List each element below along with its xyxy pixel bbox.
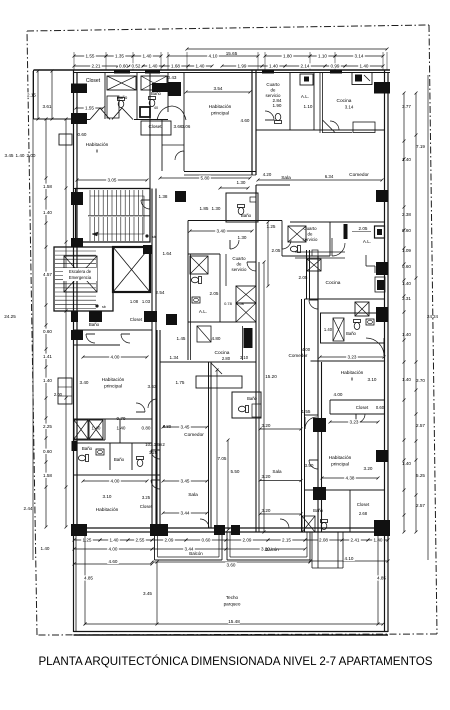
svg-text:1.90: 1.90 xyxy=(273,103,282,108)
door hab principal top xyxy=(175,151,184,160)
svg-text:3.10: 3.10 xyxy=(103,494,112,499)
svg-text:3.10: 3.10 xyxy=(240,355,249,360)
svg-text:1.40: 1.40 xyxy=(402,461,411,466)
svg-text:4.10: 4.10 xyxy=(209,54,218,59)
column C20 xyxy=(214,525,225,535)
bar counter center xyxy=(196,376,242,388)
svg-text:Comedor: Comedor xyxy=(289,353,308,358)
svg-text:2.41: 2.41 xyxy=(351,538,360,543)
svg-text:2.05: 2.05 xyxy=(210,291,219,296)
svg-text:Habitación: Habitación xyxy=(86,142,109,148)
svg-text:7.05: 7.05 xyxy=(218,456,227,461)
door hab ppal left xyxy=(148,399,157,408)
svg-text:1.58: 1.58 xyxy=(43,473,52,478)
wall top exterior xyxy=(34,69,391,71)
svg-text:2.14: 2.14 xyxy=(301,64,310,69)
chimney shaft left xyxy=(58,378,72,404)
dim 3.20 col xyxy=(260,428,301,430)
dim chain top row A xyxy=(74,55,106,57)
svg-text:0.60: 0.60 xyxy=(78,132,87,137)
svg-text:principal: principal xyxy=(104,384,122,390)
svg-text:4.00: 4.00 xyxy=(109,547,118,552)
balcony 2 outline xyxy=(226,532,228,560)
wall right exterior xyxy=(384,70,386,632)
dim 3.23 r2 xyxy=(320,356,384,358)
wall cocina2 sides xyxy=(306,250,308,299)
dim 1.55 closet xyxy=(76,107,103,109)
closet X bottom-left B xyxy=(89,420,103,439)
shower bath2 xyxy=(333,318,344,341)
svg-text:1.40: 1.40 xyxy=(143,54,152,59)
shower bath2 top xyxy=(140,107,150,117)
svg-text:15.65: 15.65 xyxy=(226,51,238,56)
svg-text:1.55: 1.55 xyxy=(85,106,94,111)
svg-text:2.57: 2.57 xyxy=(416,503,425,508)
wall y130 right band xyxy=(256,129,385,131)
wall right apartment service band xyxy=(289,73,291,131)
svg-text:5.25: 5.25 xyxy=(416,473,425,478)
wall top-left notch xyxy=(33,70,35,119)
dim 24.25 left overall xyxy=(32,71,34,560)
wall y490 right rooms xyxy=(305,489,351,491)
toilet bottom-left A xyxy=(78,455,88,462)
column C11 xyxy=(89,311,102,322)
dim 4.00 left xyxy=(83,356,147,358)
svg-text:0.43: 0.43 xyxy=(168,75,177,80)
svg-text:1.40: 1.40 xyxy=(41,546,50,551)
wall AL x220 xyxy=(219,254,221,322)
svg-text:1.10: 1.10 xyxy=(304,104,313,109)
svg-text:7.19: 7.19 xyxy=(416,144,425,149)
toilet cuarto servicio right xyxy=(275,113,282,123)
svg-text:2.00: 2.00 xyxy=(54,392,63,397)
column C17 xyxy=(313,487,326,500)
door habitacion bottom xyxy=(151,480,160,489)
svg-text:3.23: 3.23 xyxy=(348,355,357,360)
svg-text:3.20: 3.20 xyxy=(364,466,373,471)
svg-text:1.40: 1.40 xyxy=(149,64,158,69)
bath2 right box xyxy=(321,313,385,343)
closet X bottom-left A xyxy=(74,420,88,439)
svg-text:3.05: 3.05 xyxy=(108,178,117,183)
svg-text:servicio: servicio xyxy=(303,237,318,242)
wall bottom main xyxy=(74,527,389,529)
svg-text:4.00: 4.00 xyxy=(334,392,343,397)
wall closet strip x162 xyxy=(161,120,163,172)
svg-text:0.99: 0.99 xyxy=(331,64,340,69)
svg-text:3.31: 3.31 xyxy=(402,296,411,301)
door cuarto2 b xyxy=(331,238,333,256)
svg-text:5.80: 5.80 xyxy=(201,176,210,181)
svg-text:3.10: 3.10 xyxy=(368,377,377,382)
svg-text:3.61: 3.61 xyxy=(43,104,52,109)
svg-text:Cuarto: Cuarto xyxy=(303,226,317,231)
door cocina top xyxy=(330,121,339,130)
svg-text:Habitación: Habitación xyxy=(102,377,125,383)
wall chunk right xyxy=(344,224,348,239)
svg-text:1.80: 1.80 xyxy=(283,54,292,59)
closet hatch top A xyxy=(107,76,136,90)
closet hatch cocina2 xyxy=(307,259,321,271)
svg-text:principal: principal xyxy=(211,111,229,117)
svg-text:1.40: 1.40 xyxy=(402,377,411,382)
door closet2 xyxy=(356,414,365,423)
wall y415 entry right xyxy=(305,414,319,416)
svg-text:0.60: 0.60 xyxy=(119,64,128,69)
svg-text:1.40: 1.40 xyxy=(402,332,411,337)
svg-text:2.09: 2.09 xyxy=(165,538,174,543)
svg-text:4.57: 4.57 xyxy=(43,272,52,277)
counter cuarto2 ledge xyxy=(295,251,345,253)
svg-text:Closet: Closet xyxy=(86,78,101,84)
toilet bath center xyxy=(238,406,248,413)
wall parqueo bottom xyxy=(74,631,389,633)
svg-text:103.13m2: 103.13m2 xyxy=(145,442,165,447)
column C4 xyxy=(152,83,168,92)
svg-text:Cocina: Cocina xyxy=(326,280,341,286)
tub top-left xyxy=(107,96,119,118)
svg-text:Habitación: Habitación xyxy=(341,370,364,376)
svg-text:2.80: 2.80 xyxy=(222,356,231,361)
dim chain right inner xyxy=(403,93,405,532)
stair upper flight xyxy=(76,189,150,243)
stair emergency labels xyxy=(63,268,97,281)
door entry right xyxy=(304,417,306,429)
column C21 xyxy=(231,525,240,535)
bath center-top room xyxy=(226,193,258,222)
svg-text:1.75: 1.75 xyxy=(176,380,185,385)
dim 7.05 xyxy=(216,370,218,530)
svg-text:1.40: 1.40 xyxy=(43,378,52,383)
svg-text:0.60: 0.60 xyxy=(402,228,411,233)
svg-text:Techo: Techo xyxy=(226,595,239,600)
svg-text:2.05: 2.05 xyxy=(359,226,368,231)
svg-text:1.03: 1.03 xyxy=(142,299,151,304)
door cocina center leaf xyxy=(211,363,222,374)
duct shaft center xyxy=(236,286,256,303)
dim chain bottom row B xyxy=(74,548,152,550)
door bath left xyxy=(86,334,95,343)
svg-text:1.64: 1.64 xyxy=(163,251,172,256)
wall x302 lower right xyxy=(301,299,303,532)
svg-text:Baño: Baño xyxy=(346,331,356,336)
svg-text:2.09: 2.09 xyxy=(243,538,252,543)
svg-text:servicio: servicio xyxy=(232,267,247,272)
svg-text:2.08: 2.08 xyxy=(319,538,328,543)
svg-text:4.00: 4.00 xyxy=(111,479,120,484)
column C5 xyxy=(374,82,390,94)
lot boundary dash-dot right xyxy=(429,25,437,634)
svg-text:1.40: 1.40 xyxy=(402,157,411,162)
dim 15.48 parqueo xyxy=(85,623,383,625)
toilet bath2 xyxy=(354,320,361,330)
dim 15.20 xyxy=(263,262,265,532)
dim interior verticals xyxy=(267,222,269,286)
svg-text:3.14: 3.14 xyxy=(355,54,364,59)
svg-text:4.80: 4.80 xyxy=(212,336,221,341)
svg-text:1.55: 1.55 xyxy=(302,409,311,414)
svg-text:parqueo: parqueo xyxy=(224,602,241,607)
svg-text:2.25: 2.25 xyxy=(43,424,52,429)
toilet AL left xyxy=(191,277,201,284)
svg-text:1.85: 1.85 xyxy=(200,206,209,211)
svg-text:1.40: 1.40 xyxy=(196,64,205,69)
wall habitacion II xyxy=(74,188,150,190)
dim 4.38 xyxy=(322,477,378,479)
svg-text:1.30: 1.30 xyxy=(238,235,247,240)
column C16 xyxy=(313,418,326,432)
column C15 xyxy=(376,307,388,322)
lot boundary dash-dot left xyxy=(27,31,37,635)
svg-text:4.00: 4.00 xyxy=(302,347,311,352)
door closet mid xyxy=(136,403,145,412)
svg-text:3.45: 3.45 xyxy=(181,479,190,484)
svg-text:1.38: 1.38 xyxy=(159,194,168,199)
svg-text:3.60: 3.60 xyxy=(227,563,236,568)
svg-text:4.85: 4.85 xyxy=(84,576,93,581)
column C19 xyxy=(150,524,168,536)
svg-text:1.40: 1.40 xyxy=(43,210,52,215)
svg-text:1.40: 1.40 xyxy=(16,153,25,158)
wall closet row y419-440 left xyxy=(74,418,152,420)
svg-text:Closet: Closet xyxy=(356,405,369,410)
svg-text:2.54: 2.54 xyxy=(156,290,165,295)
column C6 xyxy=(376,190,388,202)
svg-text:3.14: 3.14 xyxy=(345,105,354,110)
wall kitchen counters top-right xyxy=(319,73,321,134)
column C8 xyxy=(71,192,83,205)
svg-text:1.35: 1.35 xyxy=(115,54,124,59)
dim 24.24 right overall xyxy=(427,75,429,560)
wall y322 center xyxy=(188,321,236,323)
svg-text:6.34: 6.34 xyxy=(325,174,334,179)
svg-text:1.41: 1.41 xyxy=(43,354,52,359)
closet2 box xyxy=(141,121,171,135)
svg-text:1.30: 1.30 xyxy=(237,180,246,185)
column C4b xyxy=(168,82,181,96)
svg-text:Closet: Closet xyxy=(130,317,143,322)
svg-text:3.23: 3.23 xyxy=(350,420,359,425)
dim 15.65 overall top xyxy=(187,48,387,50)
wall x188 center spine xyxy=(187,221,189,361)
dim 3.40 center xyxy=(190,230,252,232)
svg-text:0.70: 0.70 xyxy=(117,416,126,421)
svg-text:2.44: 2.44 xyxy=(24,506,33,511)
column C9 xyxy=(71,238,83,247)
svg-text:1.25: 1.25 xyxy=(149,450,158,455)
svg-text:2.00: 2.00 xyxy=(27,153,36,158)
dim chain left inner xyxy=(45,119,47,527)
door double top xyxy=(157,106,172,120)
svg-text:A.L.: A.L. xyxy=(363,239,371,244)
svg-text:Cocina: Cocina xyxy=(337,98,352,104)
svg-text:sb: sb xyxy=(152,235,156,239)
svg-text:1.55: 1.55 xyxy=(86,54,95,59)
svg-text:Emergencia: Emergencia xyxy=(69,275,92,280)
kitchen2 notch xyxy=(365,255,367,266)
svg-text:3.20: 3.20 xyxy=(262,508,271,513)
column C22 xyxy=(374,520,390,536)
svg-text:1.40: 1.40 xyxy=(117,426,126,431)
wall y220 center band xyxy=(188,220,256,222)
dim 1.30a xyxy=(220,187,248,189)
stove cocina2 xyxy=(375,277,385,292)
door center hall xyxy=(247,262,256,271)
svg-text:II: II xyxy=(96,149,99,155)
shower bath br xyxy=(302,516,315,532)
dim 3.23 xyxy=(330,421,378,423)
svg-text:1.09: 1.09 xyxy=(402,248,411,253)
svg-text:Escalera de: Escalera de xyxy=(69,269,92,274)
svg-text:3.45: 3.45 xyxy=(181,425,190,430)
balcony 1 outline xyxy=(154,532,156,560)
svg-text:de: de xyxy=(237,262,242,267)
svg-text:0.80: 0.80 xyxy=(163,424,172,429)
svg-text:3.77: 3.77 xyxy=(402,104,411,109)
closet hatch top B xyxy=(141,76,167,90)
toilet baño center-top xyxy=(238,205,245,215)
shaft AL 2 box xyxy=(375,226,385,238)
svg-text:1.10: 1.10 xyxy=(318,54,327,59)
elevator shaft xyxy=(113,247,150,292)
svg-text:Baño: Baño xyxy=(82,446,93,451)
svg-text:1.30: 1.30 xyxy=(212,206,221,211)
svg-text:24.24: 24.24 xyxy=(427,314,439,319)
shaft AL top-right xyxy=(300,74,313,85)
toilet bottom-right xyxy=(321,520,328,530)
door balcony1 xyxy=(200,519,209,528)
svg-text:Comedor: Comedor xyxy=(349,172,369,178)
lot boundary dash-dot top xyxy=(27,25,429,31)
svg-text:Balcón: Balcón xyxy=(189,551,203,556)
svg-text:1.40: 1.40 xyxy=(402,281,411,286)
witness lines top xyxy=(73,52,75,70)
dim 4.85 parqueo right xyxy=(377,532,379,624)
shaft cuarto2 xyxy=(288,226,306,242)
svg-text:3.20: 3.20 xyxy=(262,423,271,428)
svg-text:0.78: 0.78 xyxy=(224,301,233,306)
svg-text:Closet: Closet xyxy=(357,502,370,507)
door bath2 arc xyxy=(383,338,385,356)
svg-text:sb: sb xyxy=(102,305,106,309)
kitchen sink top-right xyxy=(352,73,372,85)
svg-text:1.08: 1.08 xyxy=(130,299,139,304)
wall x209 lower xyxy=(208,362,210,528)
svg-text:3.06: 3.06 xyxy=(182,124,191,129)
bath center box xyxy=(232,392,261,418)
svg-text:A.L.: A.L. xyxy=(199,309,207,314)
svg-text:3.50: 3.50 xyxy=(305,463,314,468)
svg-text:0.60: 0.60 xyxy=(376,405,385,410)
svg-text:1.45: 1.45 xyxy=(177,336,186,341)
svg-text:Baño: Baño xyxy=(313,508,323,513)
wall center spine x256 long xyxy=(255,220,257,532)
svg-text:Baño: Baño xyxy=(89,322,100,327)
column left wall y441 xyxy=(72,441,78,451)
svg-text:3.63: 3.63 xyxy=(148,384,157,389)
column C23 xyxy=(71,330,83,340)
door bath center xyxy=(230,240,239,249)
column C24 xyxy=(376,450,388,462)
wall spine x152-156 center-left xyxy=(151,189,153,533)
wall x157 lower spine xyxy=(156,330,158,532)
toilet bath top-left xyxy=(118,98,125,108)
dim 3.45 parqueo mid xyxy=(156,562,158,624)
svg-text:Baño: Baño xyxy=(114,457,125,462)
column C12 xyxy=(144,311,157,322)
column C18 xyxy=(71,524,87,536)
svg-text:40: 40 xyxy=(154,106,158,110)
wall y330 left band xyxy=(74,329,152,331)
svg-text:1.25: 1.25 xyxy=(83,538,92,543)
svg-text:0.58: 0.58 xyxy=(236,301,245,306)
dim chain right second xyxy=(415,93,417,532)
svg-text:4.00: 4.00 xyxy=(111,355,120,360)
svg-text:de: de xyxy=(271,88,276,93)
shaft 0.60 left wall xyxy=(59,134,72,145)
svg-text:2.38: 2.38 xyxy=(402,212,411,217)
counter AL diagonal xyxy=(197,326,211,342)
svg-text:1.40: 1.40 xyxy=(269,64,278,69)
svg-text:1.58: 1.58 xyxy=(43,184,52,189)
svg-text:Baño: Baño xyxy=(247,396,257,401)
svg-text:Habitación: Habitación xyxy=(209,104,232,110)
wall y360 center kitchen bottom xyxy=(160,361,256,363)
svg-text:2.21: 2.21 xyxy=(92,64,101,69)
dim 5.80 xyxy=(160,177,250,179)
sink bath2 xyxy=(366,319,374,325)
svg-text:1.40: 1.40 xyxy=(110,538,119,543)
svg-text:15.48: 15.48 xyxy=(228,619,240,624)
column C13b xyxy=(166,314,177,325)
svg-text:1.34: 1.34 xyxy=(170,355,179,360)
svg-text:2.15: 2.15 xyxy=(282,538,291,543)
wall right cuarto servicio2 xyxy=(281,221,283,257)
column C1 xyxy=(71,84,87,94)
toilet bottom-left B xyxy=(137,457,144,467)
wall y362 right rooms xyxy=(311,360,385,362)
svg-text:3.20: 3.20 xyxy=(262,474,271,479)
dim 4.60 bottom xyxy=(74,563,152,565)
svg-text:3.45: 3.45 xyxy=(5,153,14,158)
wall closet2 y400-414 xyxy=(330,399,385,401)
door cuarto servicio top xyxy=(265,111,274,120)
svg-text:3.25: 3.25 xyxy=(142,495,151,500)
svg-text:Baño: Baño xyxy=(117,95,128,100)
dim 3.05 xyxy=(77,179,147,181)
wall y119 top-left band xyxy=(74,119,90,121)
wall cocina2 bottom y299 xyxy=(305,298,385,300)
svg-text:2.55: 2.55 xyxy=(136,538,145,543)
svg-text:3.40: 3.40 xyxy=(217,229,226,234)
svg-text:Cuarto: Cuarto xyxy=(232,256,246,261)
wall y171 sala top xyxy=(184,171,256,173)
door hab ppal2 xyxy=(309,460,318,469)
door balcony2 xyxy=(280,519,289,528)
svg-text:Comedor: Comedor xyxy=(184,432,204,438)
sink AL left xyxy=(192,297,200,303)
stair emergency lower xyxy=(54,247,113,311)
wall right apt2 x318 spine xyxy=(317,256,319,532)
shower bath center xyxy=(252,404,261,417)
svg-text:Habitación: Habitación xyxy=(329,455,352,461)
column C14 xyxy=(376,262,388,275)
svg-text:1.99: 1.99 xyxy=(238,64,247,69)
svg-text:4.20: 4.20 xyxy=(263,172,272,177)
dim 4.85 parqueo left xyxy=(84,532,86,624)
wall left exterior xyxy=(73,70,75,632)
dim 4.00 hab xyxy=(83,480,147,482)
